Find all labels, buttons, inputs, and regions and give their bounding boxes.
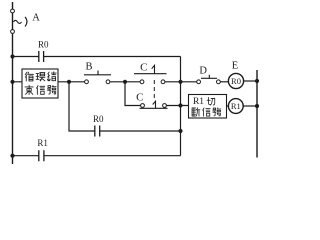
svg-text:R1: R1 [37,138,48,148]
wire coil R1 to right rail [243,105,257,107]
contact A (top-left switch symbol) [11,9,27,33]
svg-text:C: C [136,91,143,103]
svg-text:E: E [232,61,238,72]
hanzi hao [47,86,56,95]
hanzi huan [36,73,45,81]
node right-rail/E [255,79,259,83]
node rung/R0-branch [67,80,71,84]
contact C lower (NC with arrow) [140,101,168,108]
box label R1 cut-off-signal (Chinese) [189,95,227,119]
wire coil E to right rail [244,80,258,82]
svg-text:R1: R1 [193,97,204,107]
pushbutton B (NO) [84,71,111,84]
hanzi xin2 [203,108,211,116]
wire box R1 to coil R1 [227,105,229,107]
wire branch down to lower C [125,82,141,106]
node rail/main-rung [10,80,14,84]
hanzi jie [47,72,56,81]
node bus/lower-C-rung [178,103,182,107]
svg-text:D: D [199,65,207,76]
wire bottom R1 branch [13,155,181,157]
wire main rung C to D [165,81,197,83]
box label cycle-end-signal (Chinese) [22,69,58,98]
wire lower C to box R1 [166,105,188,107]
svg-text:R0: R0 [93,114,104,124]
svg-text:R0: R0 [38,40,49,50]
svg-text:B: B [85,62,92,73]
hanzi hao2 [213,108,221,116]
hanzi qie [207,97,215,105]
node rail/top-branch [10,54,14,58]
hanzi xun [25,72,33,81]
node rung/C-branch [123,80,127,84]
contact R1 (bottom, NO) [39,150,44,161]
pushbutton D (NO) [197,75,221,84]
contact R0 (top, NO) [39,51,44,62]
contact R0 (lower, NO) [95,126,100,137]
hanzi xin [37,86,45,95]
wire top R0 bypass branch [13,56,181,58]
hanzi shu [25,85,33,94]
wire main rung left segment [13,81,85,83]
svg-text:A: A [32,13,40,24]
wire left rail [12,2,14,164]
coil E (R0) [228,73,243,88]
wire main rung between B and C [110,81,140,83]
wire lower R0 branch [69,82,181,131]
svg-text:R0: R0 [231,76,241,86]
coil R1 [228,99,243,114]
node bus/R0-branch [178,129,182,133]
node rail/bottom-branch [10,154,14,158]
wire right rail [256,70,258,158]
wire main rung D to coil E [220,81,228,83]
wire vertical bus x=180.5 [180,57,182,156]
mechanical linkage dashed line [153,80,155,101]
node right-rail/R1 [255,104,259,108]
hanzi duan [192,108,200,116]
node bus/main-rung [178,80,182,84]
contact C upper (NO with arrow) [134,65,167,83]
svg-text:R1: R1 [231,101,241,111]
svg-text:C: C [140,61,147,73]
